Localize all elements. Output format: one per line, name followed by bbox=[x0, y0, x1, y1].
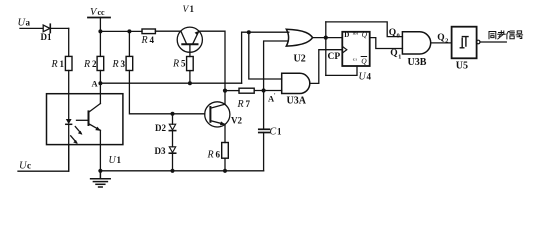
svg-text:4: 4 bbox=[367, 71, 372, 81]
wire Q0 top line bbox=[326, 22, 403, 37]
and-gate U3A bbox=[282, 73, 310, 106]
wire A' up to U2 input 2 bbox=[264, 41, 289, 91]
node V1/V2/R7 junction bbox=[223, 89, 227, 93]
svg-text:4: 4 bbox=[150, 35, 155, 45]
and-gate U3B bbox=[402, 32, 430, 68]
wire U3B output to U5 bbox=[431, 42, 452, 44]
resistor R6 bbox=[207, 143, 229, 161]
resistor R4 bbox=[141, 29, 156, 46]
svg-text:2: 2 bbox=[445, 38, 448, 45]
node Vcc rail junction bbox=[98, 29, 102, 33]
node Q2 label bbox=[437, 33, 448, 45]
wire V2 emitter down bbox=[224, 124, 226, 142]
optocoupler U1 bbox=[47, 94, 123, 166]
node U2/U3A branch junction bbox=[247, 30, 251, 34]
wire A' down to C1 bbox=[263, 91, 265, 130]
svg-text:CP: CP bbox=[328, 52, 341, 62]
wire V2 collector up bbox=[224, 91, 226, 105]
svg-text:3: 3 bbox=[121, 59, 126, 69]
wire D3 to ground rail bbox=[172, 153, 174, 171]
svg-text:Q: Q bbox=[390, 49, 397, 59]
node ground junction bbox=[98, 169, 102, 173]
svg-text:1: 1 bbox=[277, 127, 282, 137]
resistor R5 bbox=[172, 57, 193, 71]
svg-text:R: R bbox=[83, 59, 90, 70]
svg-text:C: C bbox=[270, 127, 277, 138]
svg-text:R: R bbox=[141, 35, 148, 46]
svg-text:V2: V2 bbox=[231, 115, 242, 125]
wire R5 bottom to node A line bbox=[189, 71, 191, 84]
wire Ua input bbox=[20, 27, 69, 29]
svg-text:1: 1 bbox=[190, 4, 195, 14]
svg-text:1D1: 1D1 bbox=[352, 31, 358, 35]
svg-text:5: 5 bbox=[181, 59, 186, 69]
svg-text:D3: D3 bbox=[155, 146, 166, 156]
svg-text:1: 1 bbox=[117, 155, 122, 165]
capacitor C1 bbox=[259, 127, 282, 138]
wire R7 to U3A input 2 (node A') bbox=[254, 90, 282, 92]
svg-text:Q: Q bbox=[362, 30, 368, 39]
svg-text:C1: C1 bbox=[353, 58, 357, 62]
wire R4 to V1 collector bbox=[155, 30, 181, 32]
svg-text:6: 6 bbox=[216, 150, 221, 160]
node Uc input label bbox=[19, 160, 31, 171]
wire feedback vertical bbox=[325, 22, 327, 76]
wire D1 to R1 bbox=[68, 28, 70, 56]
resistor R2 bbox=[83, 56, 104, 70]
diode D3 bbox=[155, 146, 176, 156]
node D3 ground junction bbox=[170, 169, 174, 173]
svg-text:0: 0 bbox=[397, 33, 400, 40]
ground bbox=[91, 171, 111, 187]
node R6 ground junction bbox=[223, 169, 227, 173]
resistor R3 bbox=[112, 56, 133, 70]
svg-text:U3A: U3A bbox=[287, 96, 307, 107]
node A' junction bbox=[262, 88, 277, 103]
wire LED cathode down to Uc bbox=[68, 124, 70, 171]
diode LED inside U1 bbox=[66, 119, 72, 124]
node R5 junction on A line bbox=[188, 81, 192, 85]
schmitt trigger U5 bbox=[452, 27, 477, 72]
transistor V1 bbox=[177, 4, 202, 57]
diode D2 bbox=[155, 123, 176, 133]
svg-text:Q: Q bbox=[437, 33, 444, 43]
wire R6 to ground rail bbox=[224, 158, 226, 171]
resistor R1 bbox=[51, 56, 73, 70]
wire ground rail bbox=[100, 170, 263, 172]
svg-text:D1: D1 bbox=[41, 32, 52, 42]
wire node A horizontal line bbox=[100, 82, 241, 84]
node sync signal label (Chinese) bbox=[489, 31, 523, 39]
svg-text:A: A bbox=[92, 78, 99, 88]
node Ua input label bbox=[18, 18, 31, 29]
svg-text:1: 1 bbox=[398, 53, 401, 60]
svg-text:U3B: U3B bbox=[408, 57, 427, 68]
light arrows bbox=[71, 127, 83, 144]
svg-text:cc: cc bbox=[98, 8, 106, 17]
node A bbox=[92, 78, 103, 88]
wire branch down to U3A input 1 bbox=[249, 32, 282, 79]
wire D2 top bbox=[172, 114, 174, 124]
svg-text:R: R bbox=[51, 59, 58, 70]
wire U2 output to D bbox=[313, 37, 343, 39]
svg-text:D: D bbox=[344, 31, 349, 39]
wire Qbar feedback bottom bbox=[326, 66, 357, 75]
svg-text:Q: Q bbox=[389, 28, 396, 38]
wire sync output bbox=[480, 41, 506, 43]
wire R3 bottom down to diode clamp line bbox=[129, 71, 204, 114]
node D2 top junction bbox=[171, 112, 175, 116]
resistor R7 bbox=[225, 88, 254, 110]
phototransistor inside U1 bbox=[77, 83, 101, 171]
svg-text:R: R bbox=[112, 59, 119, 70]
or-gate U2 bbox=[286, 29, 312, 64]
node D input junction bbox=[324, 36, 328, 40]
svg-text:Q: Q bbox=[361, 57, 367, 66]
svg-text:2: 2 bbox=[92, 59, 97, 69]
svg-text:c: c bbox=[27, 160, 31, 170]
svg-text:1: 1 bbox=[60, 59, 65, 69]
node Q1 label bbox=[390, 49, 401, 61]
wire D2 to D3 bbox=[172, 131, 174, 147]
svg-text:R: R bbox=[207, 150, 214, 161]
wire C1 to ground rail bbox=[263, 133, 265, 171]
wire R1 to optocoupler LED bbox=[68, 71, 70, 120]
svg-text:D2: D2 bbox=[155, 123, 166, 133]
wire A line up to U2 input bbox=[242, 32, 289, 83]
transistor V2 bbox=[205, 102, 243, 127]
flip-flop U4 bbox=[342, 30, 371, 82]
wire V1 emitter to right and down bbox=[199, 31, 225, 90]
wire Vcc rail bbox=[100, 30, 142, 32]
svg-text:a: a bbox=[26, 18, 31, 28]
svg-text:U2: U2 bbox=[294, 53, 306, 64]
svg-text:U5: U5 bbox=[456, 61, 468, 72]
diode D1 bbox=[41, 24, 52, 42]
power Vcc bbox=[88, 7, 110, 18]
wire U3A output to CP bbox=[310, 50, 343, 84]
svg-text:R: R bbox=[172, 59, 179, 70]
svg-text:R: R bbox=[237, 99, 244, 110]
svg-text:U: U bbox=[359, 71, 367, 82]
node Q0 label bbox=[389, 28, 400, 40]
node R3 top junction bbox=[127, 29, 131, 33]
svg-text:7: 7 bbox=[246, 99, 251, 109]
wire Uc input bbox=[18, 145, 69, 172]
output bubble bbox=[476, 40, 480, 44]
wire Vcc down to R2 bbox=[99, 18, 101, 57]
svg-text:U: U bbox=[109, 155, 117, 166]
wire Q output to U3B bbox=[370, 38, 403, 49]
wire R3 top bbox=[128, 31, 130, 56]
wire R2 bottom to node A bbox=[99, 71, 101, 84]
